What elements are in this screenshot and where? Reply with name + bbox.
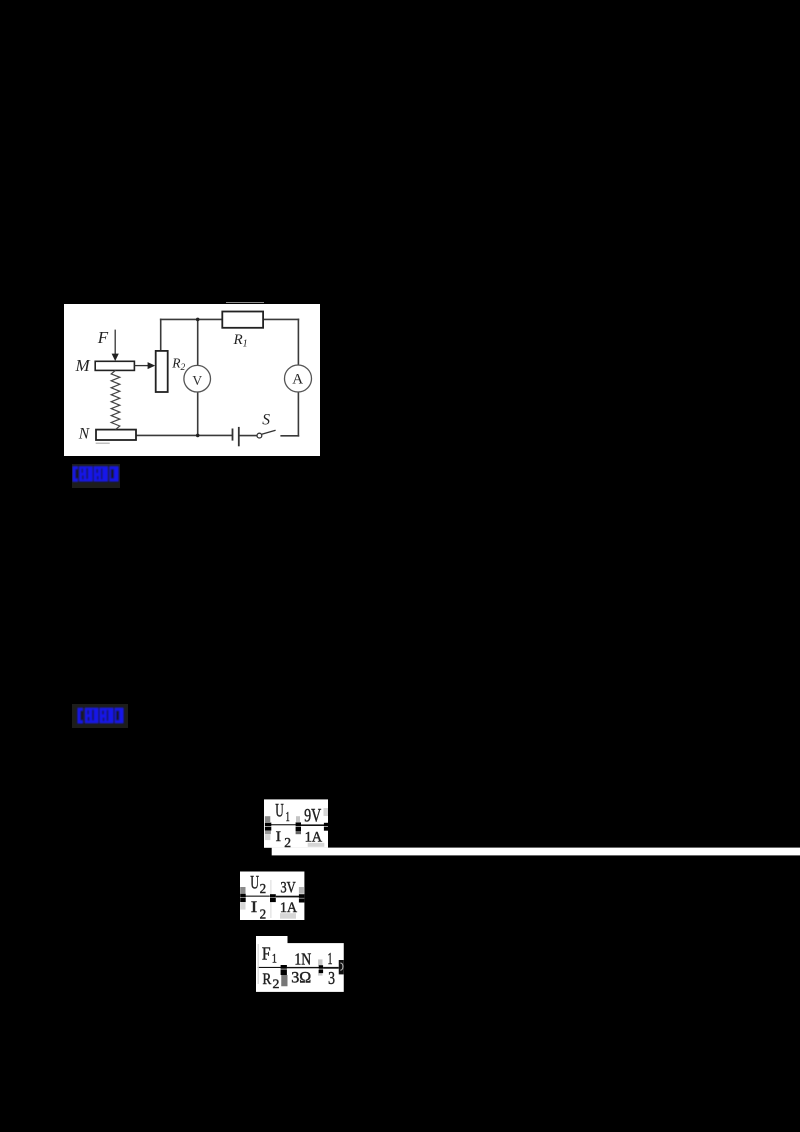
- resistor R1: [222, 312, 263, 328]
- svg-text:S: S: [262, 411, 270, 428]
- svg-text:I: I: [276, 829, 282, 845]
- rheostat R2: [156, 351, 168, 392]
- svg-text:N: N: [78, 426, 91, 443]
- circuit figure (white inset image): [64, 304, 320, 456]
- svg-text:V: V: [192, 373, 202, 388]
- svg-text:U: U: [275, 801, 284, 822]
- svg-text:U: U: [250, 873, 259, 894]
- svg-text:1: 1: [286, 809, 290, 824]
- svg-text:I: I: [251, 899, 257, 916]
- smudge under plate N: [96, 443, 110, 444]
- wire voltmeter bottom: [197, 392, 199, 435]
- wire right vertical lower: [297, 392, 299, 436]
- equation 3: F1/R2 = 1N/3ohm = 1/3: [256, 936, 344, 992]
- svg-text:2: 2: [273, 977, 280, 991]
- svg-text:3: 3: [328, 968, 335, 988]
- wire switch to corner: [281, 435, 298, 437]
- wire top right horizontal: [263, 318, 298, 320]
- svg-text:3Ω: 3Ω: [291, 970, 311, 987]
- svg-text:M: M: [75, 356, 91, 375]
- force arrow F: [112, 330, 119, 361]
- wire bottom left: [136, 434, 232, 436]
- battery: [233, 427, 239, 446]
- svg-text:9V: 9V: [304, 806, 321, 827]
- plate M: [95, 361, 134, 370]
- switch S: [257, 430, 276, 438]
- svg-text:F: F: [262, 943, 271, 963]
- svg-text:2: 2: [260, 907, 267, 921]
- analysis label block: [72, 704, 128, 728]
- svg-text:1: 1: [272, 952, 277, 966]
- svg-text:R: R: [263, 971, 272, 988]
- wire battery to switch: [239, 435, 257, 437]
- svg-text:2: 2: [284, 835, 291, 850]
- node junction top: [196, 318, 200, 322]
- answer label block: [72, 464, 120, 488]
- node junction bottom: [196, 434, 200, 438]
- ammeter A: [285, 365, 312, 392]
- equation 1: U1/I2 = 9V/1A: [264, 799, 800, 856]
- arrow M to R2 (slider arrow): [134, 362, 155, 369]
- wire right vertical upper: [297, 319, 299, 365]
- equation 2: U2/I2 = 3V/1A: [240, 871, 305, 921]
- dark blob right edge: [339, 960, 344, 974]
- voltmeter V: [184, 365, 211, 392]
- svg-text:F: F: [97, 328, 109, 347]
- wire top left horizontal: [161, 318, 223, 320]
- wire left vertical to rheostat: [160, 319, 162, 351]
- wire voltmeter top: [197, 319, 199, 365]
- artifact line above figure: [226, 302, 264, 303]
- svg-text:1: 1: [328, 949, 333, 968]
- spring between M and N: [111, 370, 120, 429]
- svg-text:A: A: [292, 371, 303, 387]
- svg-text:3V: 3V: [280, 879, 296, 896]
- svg-text:1N: 1N: [294, 949, 311, 968]
- plate N: [96, 430, 136, 440]
- svg-text:2: 2: [260, 881, 267, 896]
